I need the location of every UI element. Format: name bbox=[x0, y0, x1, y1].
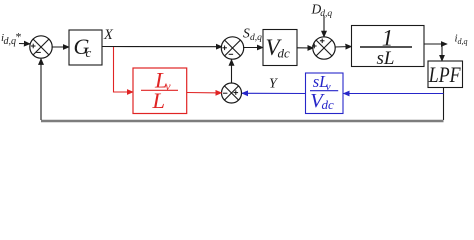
output label idq bbox=[455, 33, 468, 47]
svg-text:d,q: d,q bbox=[320, 9, 332, 19]
wire 1/sL to output idq bbox=[424, 43, 447, 45]
input label i*dq bbox=[1, 30, 22, 48]
wire Vdc to S3 bbox=[297, 47, 314, 49]
svg-text:Y: Y bbox=[269, 77, 279, 92]
svg-text:c: c bbox=[86, 45, 92, 60]
svg-text:*: * bbox=[16, 30, 22, 44]
wire blue sLv/Vdc to S4 bbox=[242, 92, 306, 94]
wire red Lv/L to S4 bbox=[187, 92, 222, 94]
summing junction S2 bbox=[221, 37, 243, 59]
svg-text:dc: dc bbox=[278, 46, 291, 61]
wire Gc to S2 bbox=[102, 46, 222, 48]
block Vdc bbox=[263, 30, 297, 66]
label Sdq bbox=[243, 26, 262, 43]
label Y bbox=[269, 77, 279, 92]
block Gc bbox=[69, 30, 102, 65]
svg-text:dc: dc bbox=[322, 97, 335, 112]
wire input to S1 bbox=[19, 43, 30, 45]
summing junction S1 bbox=[30, 36, 52, 58]
wire Ddq to S3 bbox=[323, 16, 325, 37]
svg-text:d,q: d,q bbox=[250, 33, 262, 43]
wire LPF down riser bbox=[443, 88, 445, 121]
wire feedback riser to S1 bbox=[40, 59, 42, 120]
block sLv/Vdc blue bbox=[306, 72, 344, 114]
label Ddq bbox=[311, 2, 333, 20]
node label X bbox=[103, 27, 114, 43]
wire bottom feedback bbox=[41, 120, 444, 123]
wire branch to LPF bbox=[441, 44, 443, 61]
svg-text:sL: sL bbox=[377, 48, 395, 69]
svg-text:d,q: d,q bbox=[458, 37, 468, 46]
block Lv/L red bbox=[133, 68, 187, 114]
block LPF bbox=[428, 61, 463, 88]
wire red X branch to Lv/L bbox=[114, 47, 134, 92]
summing junction S3 bbox=[312, 37, 335, 59]
svg-text:d,q: d,q bbox=[4, 36, 17, 47]
wire S3 to 1/sL bbox=[335, 46, 352, 49]
svg-text:X: X bbox=[103, 27, 114, 43]
block 1/sL bbox=[352, 26, 425, 70]
wire blue LPF to sLv/Vdc bbox=[344, 93, 444, 95]
summing junction S4 bbox=[222, 83, 242, 103]
wire S2 to Vdc bbox=[243, 47, 263, 49]
svg-text:S: S bbox=[243, 26, 250, 41]
svg-text:LPF: LPF bbox=[428, 62, 461, 87]
wire S1 to Gc bbox=[52, 46, 70, 48]
svg-text:L: L bbox=[152, 88, 166, 113]
wire S4 up to S2 bbox=[231, 60, 233, 83]
